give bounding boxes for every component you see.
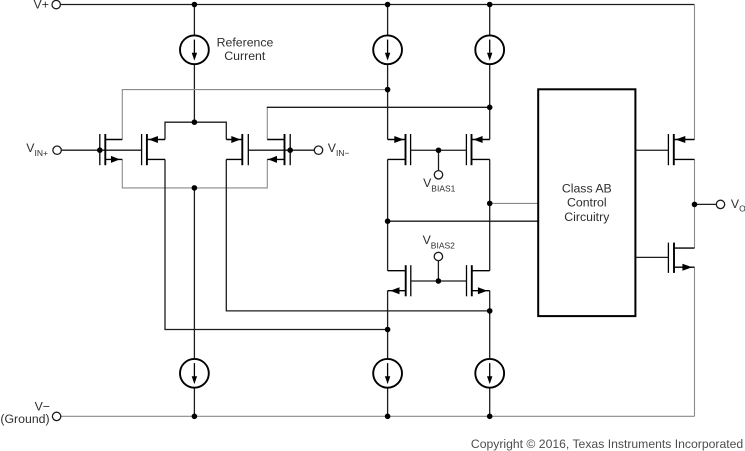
node V+ / cs2 — [385, 2, 391, 8]
current source top current source 3 — [475, 35, 504, 64]
current source bottom current source 2 — [373, 359, 402, 388]
wire V- bottom rail — [61, 415, 695, 417]
wire VIN+ gate wire — [61, 149, 141, 151]
current source bottom current source 3 — [475, 359, 504, 388]
node M1-M4 source node — [192, 185, 198, 191]
wire col x489 H source down — [489, 291, 491, 359]
transistor M10 (output NMOS) — [668, 243, 694, 273]
wire ref current top stub — [193, 5, 195, 36]
wire ref current bottom stub — [193, 64, 195, 122]
current source bottom current source 1 — [180, 359, 209, 388]
wire VO tap — [695, 203, 717, 205]
transistor M2 (VIN+ input, left inner) — [142, 134, 165, 165]
transistor M5 (VBIAS1 cascode left) — [388, 134, 439, 165]
wire M3 drain long wire — [226, 159, 489, 311]
node V- / cs2 — [385, 414, 391, 420]
wire M1 drain riser to cs2 node — [122, 90, 387, 140]
wire cs2 top stub — [387, 5, 389, 36]
transistor M4 (VIN- input, right outer) — [267, 134, 290, 165]
terminal VIN+ — [53, 146, 61, 154]
node M3 drain / M8 node — [487, 308, 493, 314]
svg-text:Copyright © 2016, Texas Instru: Copyright © 2016, Texas Instruments Inco… — [471, 437, 743, 451]
wire center column to rail — [193, 388, 195, 417]
wire col x387 to rail — [387, 388, 389, 417]
transistor M8 (VBIAS2 cascode right) — [438, 265, 489, 296]
transistor M1 (VIN+ input, left outer) — [100, 134, 123, 165]
svg-text:Circuitry: Circuitry — [564, 210, 610, 224]
wire VBIAS2 stub — [437, 261, 439, 281]
node cs3 / M4 drain — [487, 105, 493, 111]
node V- / cs3 — [487, 414, 493, 420]
transistor M6 (VBIAS1 cascode right) — [439, 134, 490, 165]
current source top current source 2 — [373, 35, 402, 64]
current source reference current — [180, 35, 209, 64]
block U1 Class AB Control Circuitry — [538, 89, 635, 316]
wire col x489 F source to H drain — [489, 159, 491, 270]
node M2 drain / M7 node — [385, 327, 391, 333]
wire box to PMOS gate — [635, 149, 668, 151]
node lower box tap node — [385, 218, 391, 224]
node VBIAS1 node — [436, 147, 442, 153]
wire cs2 column upper — [387, 64, 389, 139]
wire VIN- gate wire — [248, 149, 314, 151]
svg-text:Control: Control — [567, 196, 607, 210]
wire M1-M4 source join — [122, 159, 267, 188]
wire cs3 top stub — [489, 5, 491, 36]
wire center column lower — [193, 188, 195, 359]
node upper box tap node — [487, 201, 493, 207]
terminal VIN- — [314, 146, 322, 154]
svg-text:Reference: Reference — [217, 36, 274, 50]
terminal V- — [52, 412, 60, 420]
wire M4 drain riser — [266, 107, 268, 140]
wire col x489 to rail — [489, 388, 491, 417]
svg-text:Class AB: Class AB — [562, 181, 612, 195]
wire VBIAS1 stub — [438, 150, 440, 170]
node V+ / ref — [192, 2, 198, 8]
wire right column upper (V+ to output PMOS source) — [694, 5, 696, 140]
wire tap to box upper — [490, 202, 539, 204]
terminal V+ — [52, 0, 60, 8]
wire col x387 G source down — [387, 291, 389, 359]
transistor M3 (VIN- input, right inner) — [226, 134, 248, 165]
wire tail wire M2-M3 tops — [165, 122, 226, 139]
node VIN- gate node — [287, 147, 293, 153]
wire right column lower (NMOS source to V- rail) — [694, 267, 696, 416]
terminal VBIAS1 — [434, 171, 442, 179]
svg-text:V+: V+ — [34, 0, 49, 12]
wire V+ top rail — [61, 4, 695, 6]
node V- / cs1 — [192, 414, 198, 420]
wire cs3 column upper — [489, 64, 491, 139]
transistor M7 (VBIAS2 cascode left) — [388, 265, 439, 296]
svg-text:Current: Current — [224, 49, 266, 63]
wire M4 drain to cs3 node — [267, 106, 490, 108]
wire box to NMOS gate — [635, 256, 668, 258]
node VO node — [692, 202, 698, 208]
node V+ / cs3 — [487, 2, 493, 8]
transistor M9 (output PMOS) — [668, 134, 694, 165]
terminal VBIAS2 — [434, 252, 442, 260]
node tail node — [192, 119, 198, 125]
node VIN+ gate node — [97, 147, 103, 153]
wire tap to box lower — [388, 220, 539, 222]
wire col x387 E source to G drain — [387, 159, 389, 270]
wire right column mid (PMOS drain to NMOS drain through VO) — [694, 159, 696, 248]
node cs2 / M1 drain — [385, 87, 391, 93]
wire M2 drain long wire — [165, 159, 388, 329]
node VBIAS2 node — [436, 278, 442, 284]
svg-text:(Ground): (Ground) — [0, 412, 49, 426]
terminal VO — [716, 200, 724, 208]
